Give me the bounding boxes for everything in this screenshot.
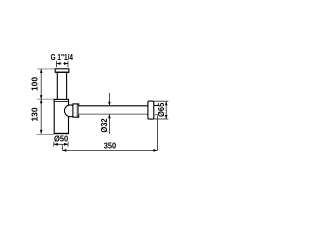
dimension 350 bbox=[62, 116, 157, 152]
svg-text:Ø32: Ø32 bbox=[99, 118, 109, 133]
dimension 130 bbox=[40, 99, 43, 134]
svg-text:G 1"1/4: G 1"1/4 bbox=[51, 52, 74, 62]
dimension Ø50 bbox=[54, 142, 68, 147]
svg-text:100: 100 bbox=[29, 77, 39, 91]
elbow ball bbox=[65, 105, 77, 117]
dimension 100 bbox=[40, 69, 43, 99]
outlet nut bbox=[73, 104, 79, 117]
extension line bottle top bbox=[37, 98, 54, 100]
svg-text:130: 130 bbox=[29, 107, 39, 121]
outlet stub bbox=[154, 106, 158, 115]
svg-text:Ø50: Ø50 bbox=[54, 133, 68, 143]
svg-text:Ø65: Ø65 bbox=[156, 102, 166, 117]
extension line bottle bottom bbox=[37, 133, 55, 135]
svg-text:350: 350 bbox=[104, 140, 117, 150]
wall rosette bbox=[148, 101, 154, 119]
dimension G thread bbox=[57, 61, 69, 67]
dimension Ø65 bbox=[154, 101, 169, 119]
horizontal pipe bbox=[79, 106, 148, 114]
dimension Ø32 bbox=[108, 93, 111, 134]
extension line nut top bbox=[37, 68, 55, 70]
inlet pipe bbox=[56, 73, 58, 100]
inlet nut bbox=[55, 69, 69, 72]
bottle body bbox=[54, 99, 69, 133]
